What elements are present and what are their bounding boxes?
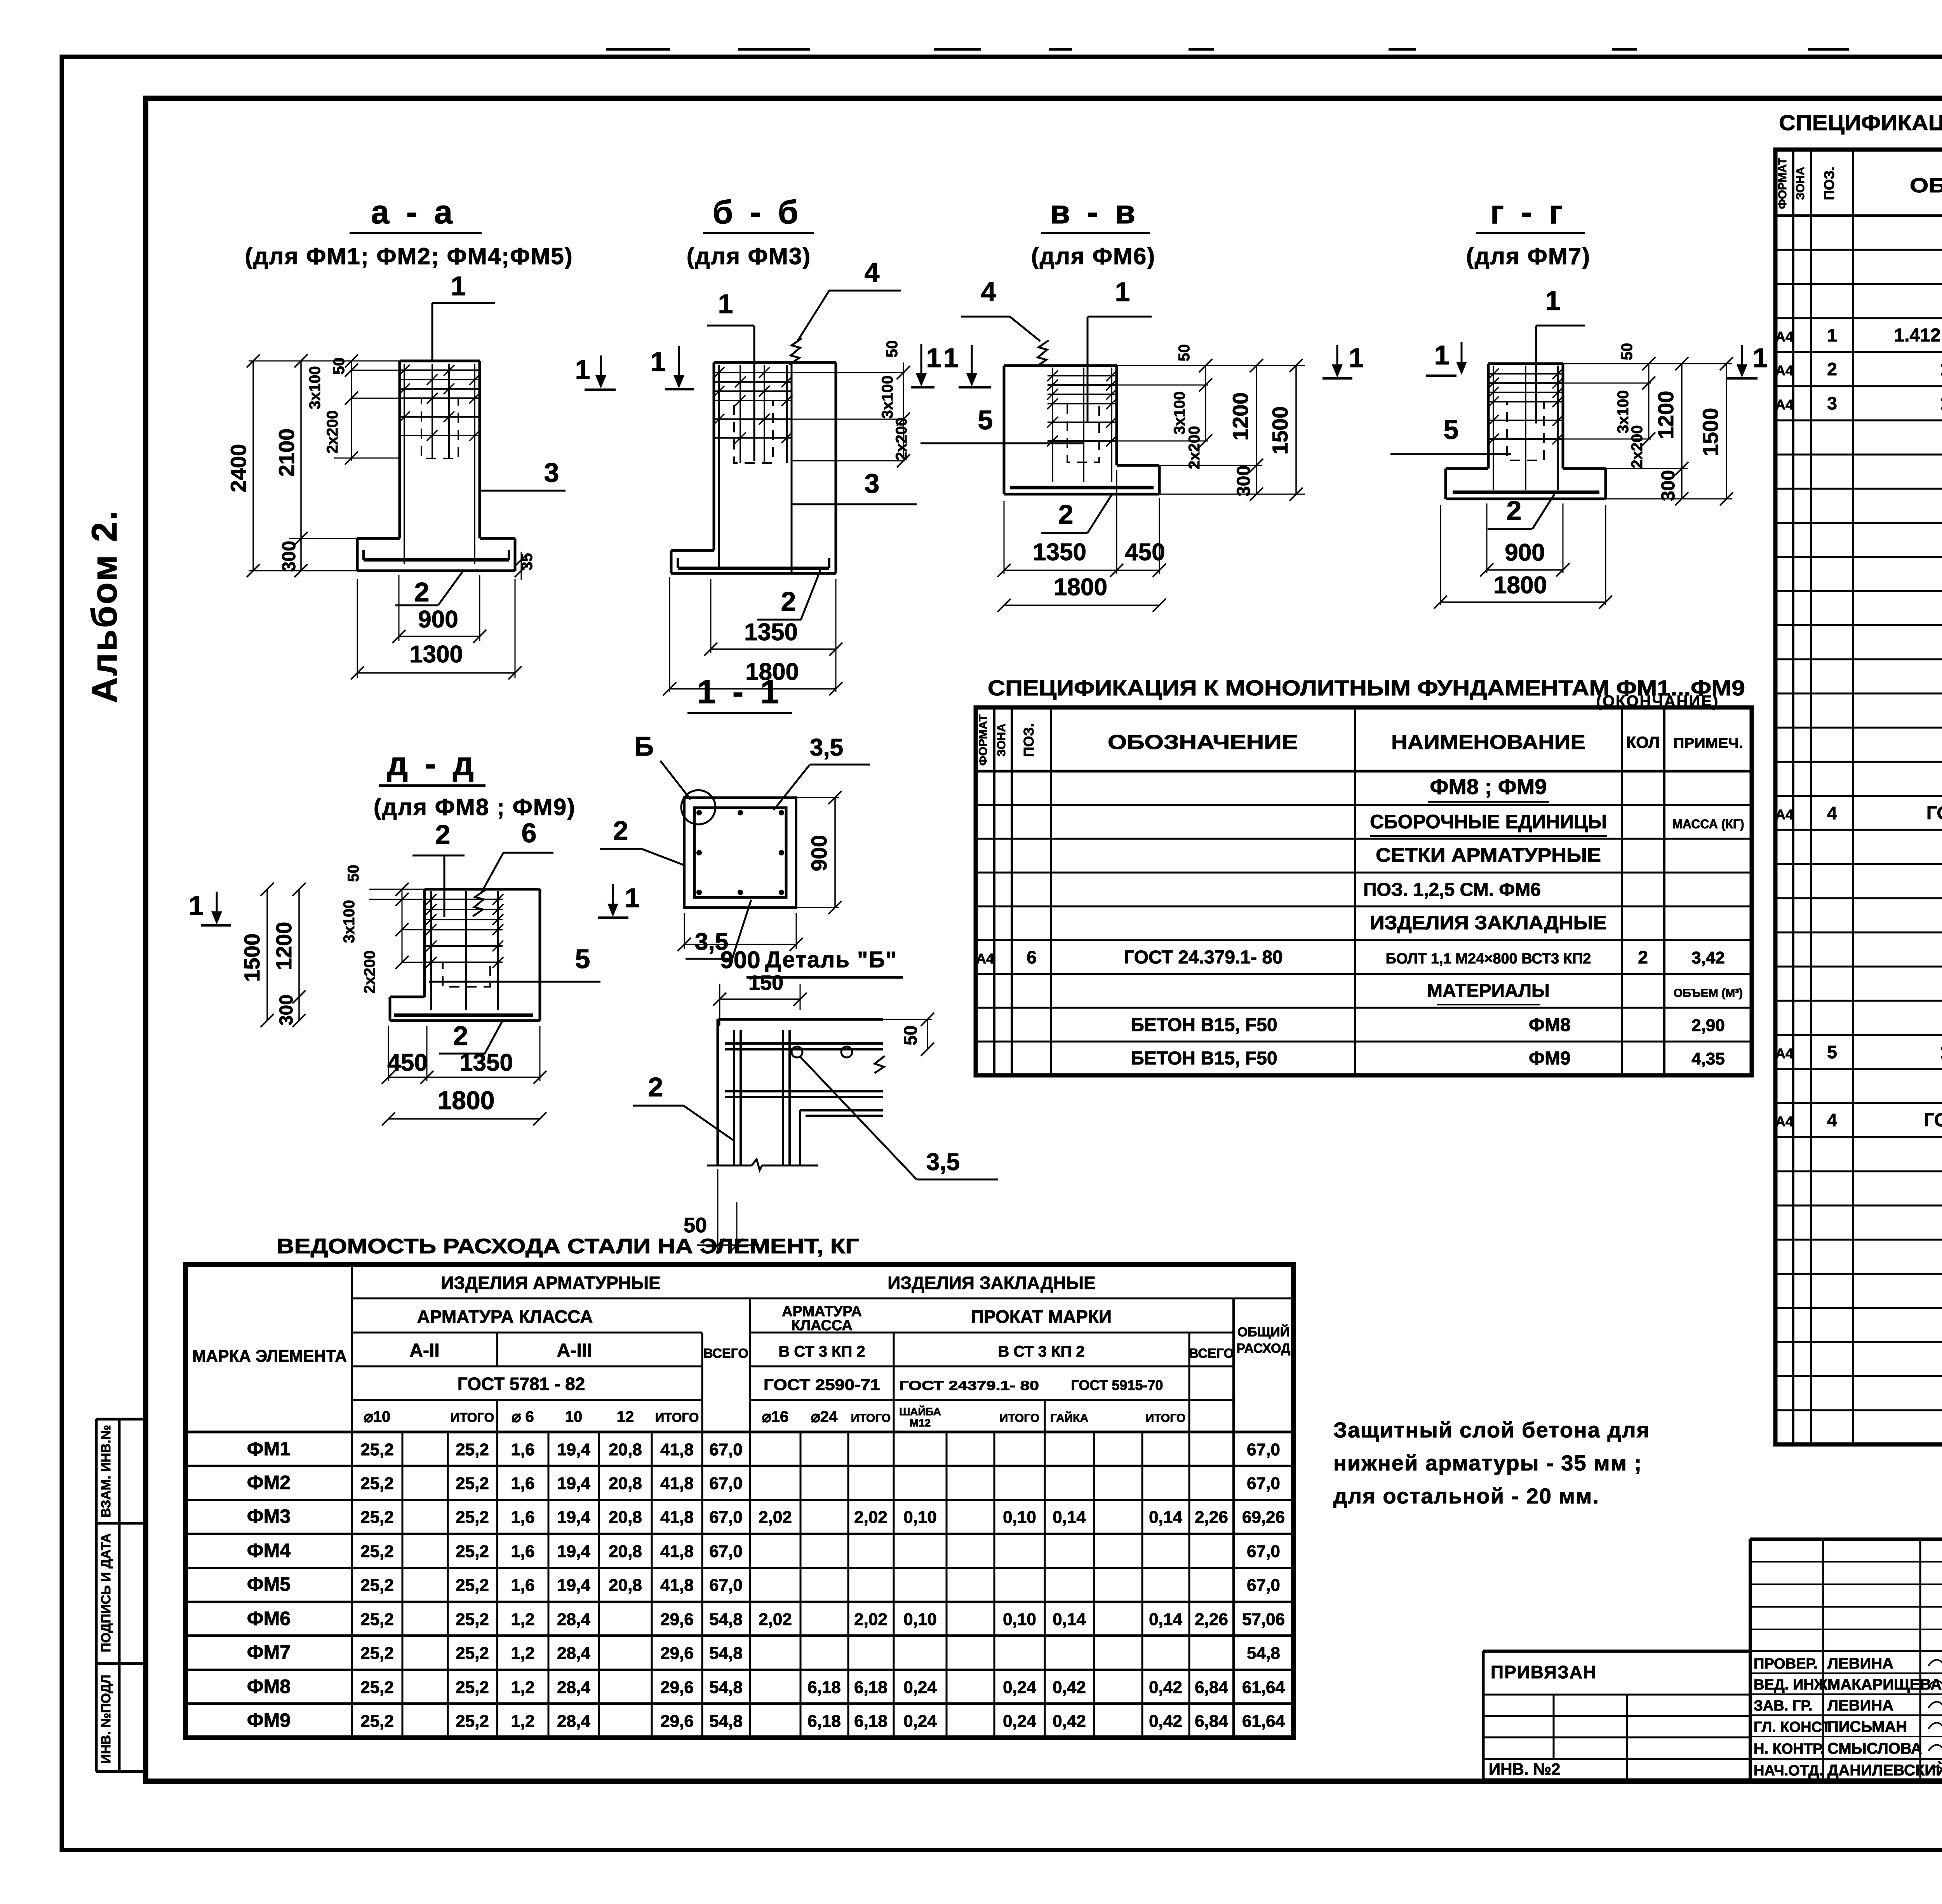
svg-text:19,4: 19,4 (557, 1508, 590, 1527)
svg-text:1800: 1800 (1054, 574, 1107, 601)
svg-text:НАИМЕНОВАНИЕ: НАИМЕНОВАНИЕ (1391, 731, 1585, 754)
svg-text:г - г: г - г (1490, 194, 1566, 231)
svg-text:А4: А4 (1775, 362, 1793, 378)
view 1-1 inner square rebar (694, 808, 786, 897)
detail B vertical rebar pair 1 (733, 1030, 735, 1165)
svg-text:1200: 1200 (1228, 392, 1253, 441)
svg-text:19,4: 19,4 (557, 1474, 590, 1493)
svg-text:2: 2 (1058, 499, 1074, 530)
detail B horizontal mesh bar 2 (725, 1090, 883, 1092)
section d-d dim 450 1350 (388, 1026, 389, 1081)
section b-b mesh bars (714, 372, 792, 373)
svg-text:2x200: 2x200 (1186, 426, 1203, 469)
svg-text:3x100: 3x100 (341, 900, 358, 943)
detail B concrete corner outline (718, 1018, 883, 1021)
svg-text:61,64: 61,64 (1242, 1678, 1285, 1697)
svg-text:28,4: 28,4 (557, 1712, 590, 1731)
svg-text:69,26: 69,26 (1242, 1508, 1285, 1527)
svg-text:ГОСТ 24.379.1- 80: ГОСТ 24.379.1- 80 (1124, 947, 1283, 968)
svg-text:ФМ4: ФМ4 (247, 1540, 291, 1561)
right spec table column lines (1792, 150, 1794, 1444)
svg-text:2: 2 (453, 1021, 468, 1051)
svg-text:ПОДПИСЬ И ДАТА: ПОДПИСЬ И ДАТА (99, 1533, 113, 1652)
svg-text:25,2: 25,2 (456, 1508, 489, 1527)
svg-text:(для ФМ6): (для ФМ6) (1031, 243, 1155, 269)
svg-text:ВСЕГО: ВСЕГО (1189, 1346, 1234, 1361)
section v-v embedded part dashed (1067, 404, 1099, 462)
svg-text:29,6: 29,6 (660, 1610, 694, 1629)
right spec table frame (1775, 150, 1942, 1444)
svg-text:ОБЩИЙ: ОБЩИЙ (1237, 1324, 1289, 1340)
svg-text:2x200: 2x200 (324, 410, 341, 453)
svg-text:41,8: 41,8 (660, 1576, 694, 1595)
svg-text:25,2: 25,2 (456, 1610, 489, 1629)
svg-text:Деталь "Б": Деталь "Б" (765, 947, 897, 972)
svg-text:а - а: а - а (371, 194, 456, 231)
svg-text:4: 4 (1827, 803, 1837, 823)
svg-text:3: 3 (544, 457, 559, 488)
svg-text:20,8: 20,8 (609, 1542, 642, 1561)
steel table data row lines (186, 1465, 1293, 1467)
svg-text:ФМ9: ФМ9 (247, 1709, 291, 1731)
svg-text:СМЫСЛОВА: СМЫСЛОВА (1827, 1740, 1922, 1757)
svg-text:67,0: 67,0 (709, 1576, 743, 1595)
svg-text:25,2: 25,2 (360, 1440, 394, 1459)
section a-a dim 900 (398, 575, 400, 641)
middle spec table frame (976, 707, 1752, 1075)
svg-text:1.412 - 1/ 77. В.3- 020- 01: 1.412 - 1/ 77. В.3- 020- 01 (1894, 325, 1942, 346)
svg-text:1,6: 1,6 (511, 1576, 534, 1595)
svg-text:0,24: 0,24 (903, 1678, 937, 1697)
section b-b dim 1350 (710, 579, 712, 653)
svg-text:2: 2 (648, 1072, 663, 1102)
svg-text:300: 300 (276, 995, 297, 1026)
section g-g dim 1800 (1440, 505, 1441, 605)
svg-text:450: 450 (1125, 539, 1165, 566)
svg-text:ЗОНА: ЗОНА (995, 723, 1008, 756)
svg-text:⌀16: ⌀16 (762, 1408, 789, 1425)
svg-text:1: 1 (1434, 340, 1450, 370)
svg-text:67,0: 67,0 (709, 1474, 743, 1493)
section v-v body outline (1004, 364, 1117, 367)
svg-text:ФМ1: ФМ1 (247, 1438, 291, 1460)
svg-text:0,42: 0,42 (1149, 1712, 1182, 1731)
svg-text:ИТОГО: ИТОГО (1000, 1412, 1039, 1425)
svg-text:СБОРОЧНЫЕ ЕДИНИЦЫ: СБОРОЧНЫЕ ЕДИНИЦЫ (1370, 811, 1607, 833)
svg-text:А4: А4 (976, 951, 994, 967)
svg-text:⌀24: ⌀24 (811, 1408, 838, 1425)
svg-text:ГОСТ 5915-70: ГОСТ 5915-70 (1071, 1377, 1163, 1393)
detail B vertical rebar pair 2 (782, 1030, 784, 1165)
title block signature rows (1750, 1672, 1942, 1674)
svg-text:МАТЕРИАЛЫ: МАТЕРИАЛЫ (1427, 981, 1550, 1001)
section b-b leader 4 weld mark (789, 338, 802, 365)
svg-text:А4: А4 (1775, 329, 1793, 345)
svg-text:1 - 1: 1 - 1 (697, 674, 783, 711)
svg-text:2: 2 (1638, 947, 1648, 967)
svg-text:Альбом 2.: Альбом 2. (85, 509, 124, 703)
svg-text:1: 1 (1115, 277, 1130, 307)
svg-text:1500: 1500 (240, 934, 264, 982)
svg-text:28,4: 28,4 (557, 1610, 590, 1629)
title block privyazan box (1483, 1650, 1750, 1653)
svg-text:10: 10 (565, 1408, 583, 1425)
svg-text:1: 1 (718, 289, 733, 319)
right spec table row lines (1775, 249, 1942, 251)
svg-text:20,8: 20,8 (609, 1440, 642, 1459)
svg-text:25,2: 25,2 (360, 1542, 394, 1561)
section a-a embedded part dashed (421, 398, 458, 458)
svg-text:0,10: 0,10 (1003, 1508, 1036, 1527)
section g-g footing outline (1446, 467, 1488, 470)
svg-text:61,64: 61,64 (1242, 1712, 1285, 1731)
svg-text:1: 1 (451, 271, 466, 301)
svg-text:КОЛ: КОЛ (1626, 733, 1660, 751)
svg-text:0,14: 0,14 (1053, 1508, 1086, 1527)
detail B dim 50 bottom (717, 1169, 719, 1250)
svg-text:ГОСТ 5781 - 82: ГОСТ 5781 - 82 (458, 1374, 585, 1394)
svg-text:Н. КОНТР.: Н. КОНТР. (1754, 1741, 1824, 1757)
svg-text:25,2: 25,2 (360, 1508, 394, 1527)
section b-b footing rebar (678, 567, 829, 570)
svg-text:ЛЕВИНА: ЛЕВИНА (1827, 1655, 1893, 1672)
svg-text:0,14: 0,14 (1149, 1610, 1182, 1629)
svg-text:25,2: 25,2 (360, 1610, 394, 1629)
svg-text:6: 6 (522, 818, 537, 848)
svg-text:1350: 1350 (459, 1049, 513, 1076)
section v-v dim 1500 (1295, 366, 1297, 494)
svg-text:А4: А4 (1775, 397, 1793, 413)
svg-text:4: 4 (1827, 1110, 1837, 1130)
section d-d dim 1200 300 (298, 889, 300, 1021)
svg-text:(для ФМ1; ФМ2; ФМ4;ФМ5): (для ФМ1; ФМ2; ФМ4;ФМ5) (245, 243, 573, 269)
svg-text:54,8: 54,8 (1247, 1644, 1280, 1663)
svg-text:1,6: 1,6 (511, 1440, 534, 1459)
svg-text:300: 300 (1234, 465, 1254, 496)
svg-text:50: 50 (684, 1214, 707, 1237)
svg-text:19,4: 19,4 (557, 1440, 590, 1459)
svg-text:3x100: 3x100 (306, 366, 324, 409)
svg-text:ФМ7: ФМ7 (247, 1641, 291, 1663)
svg-text:450: 450 (387, 1049, 427, 1076)
svg-text:ИНВ. №2: ИНВ. №2 (1489, 1760, 1560, 1778)
svg-text:ВСЕГО: ВСЕГО (703, 1346, 748, 1361)
section a-a small dims 50 3x100 2x200 (351, 361, 352, 461)
svg-text:0,14: 0,14 (1053, 1610, 1086, 1629)
svg-text:ОБОЗНАЧЕНИЕ: ОБОЗНАЧЕНИЕ (1108, 731, 1298, 754)
svg-text:6,18: 6,18 (807, 1678, 841, 1697)
svg-text:300: 300 (279, 541, 299, 572)
svg-text:50: 50 (900, 1025, 921, 1045)
svg-text:25,2: 25,2 (360, 1644, 394, 1663)
svg-text:ИНВ. №ПОДЛ: ИНВ. №ПОДЛ (99, 1675, 113, 1764)
svg-text:БОЛТ 1,1 М24×800 ВСТ3 КП2: БОЛТ 1,1 М24×800 ВСТ3 КП2 (1386, 951, 1591, 967)
section d-d embedded part dashed (443, 962, 490, 987)
svg-text:1: 1 (651, 347, 666, 377)
svg-text:ИТОГО: ИТОГО (451, 1410, 494, 1425)
svg-text:А-II: А-II (409, 1340, 439, 1361)
svg-text:ФОРМАТ: ФОРМАТ (1776, 158, 1789, 209)
svg-text:25,2: 25,2 (456, 1542, 489, 1561)
svg-text:6,84: 6,84 (1195, 1678, 1228, 1697)
detail B bolt circles (792, 1047, 802, 1057)
svg-text:1800: 1800 (1493, 572, 1547, 599)
svg-text:1200: 1200 (271, 922, 296, 970)
section a-a mesh weld ticks (399, 365, 410, 376)
svg-text:67,0: 67,0 (1247, 1474, 1280, 1493)
svg-text:2400: 2400 (226, 444, 251, 493)
svg-text:ПРИМЕЧ.: ПРИМЕЧ. (1673, 735, 1743, 751)
svg-text:67,0: 67,0 (709, 1542, 743, 1561)
svg-text:2: 2 (613, 815, 628, 846)
section d-d leader 6 weld mark (473, 890, 485, 916)
svg-text:1,2: 1,2 (511, 1644, 534, 1663)
section g-g footing rebar (1453, 491, 1599, 494)
section g-g mesh weld ticks (1488, 368, 1499, 379)
svg-text:1: 1 (943, 343, 959, 373)
svg-text:2: 2 (435, 819, 451, 850)
svg-text:5: 5 (1827, 1042, 1837, 1062)
svg-text:1: 1 (625, 883, 640, 913)
svg-text:28,4: 28,4 (557, 1678, 590, 1697)
svg-text:2x200: 2x200 (893, 417, 910, 460)
svg-text:ФМ9: ФМ9 (1529, 1048, 1571, 1069)
svg-text:ФМ3: ФМ3 (247, 1505, 291, 1527)
svg-text:РАСХОД: РАСХОД (1237, 1341, 1291, 1356)
section a-a dim 2100 300 (249, 361, 400, 362)
svg-text:20,8: 20,8 (609, 1508, 642, 1527)
svg-text:50: 50 (1176, 344, 1193, 362)
svg-text:900: 900 (807, 835, 831, 871)
section v-v dim 1200 300 (1117, 365, 1305, 366)
svg-text:1.410 - 3.1 - 01: 1.410 - 3.1 - 01 (1940, 393, 1942, 414)
detail B horizontal mesh bar 1 (725, 1042, 883, 1045)
svg-text:ОБОЗНАЧЕНИЕ: ОБОЗНАЧЕНИЕ (1910, 174, 1942, 197)
detail B break mark right (875, 1056, 885, 1073)
svg-text:1,6: 1,6 (511, 1542, 534, 1561)
section b-b inner face line (791, 362, 793, 573)
svg-text:2: 2 (1507, 495, 1522, 526)
svg-text:ПИСЬМАН: ПИСЬМАН (1827, 1718, 1907, 1735)
svg-text:67,0: 67,0 (1247, 1440, 1280, 1459)
svg-text:ФМ2: ФМ2 (247, 1472, 291, 1493)
svg-text:29,6: 29,6 (660, 1712, 694, 1731)
svg-text:ФМ8: ФМ8 (247, 1676, 291, 1697)
svg-text:1: 1 (1753, 343, 1768, 373)
svg-text:нижней арматуры - 35 мм ;: нижней арматуры - 35 мм ; (1333, 1451, 1642, 1475)
svg-text:ВЕДОМОСТЬ РАСХОДА СТАЛИ НА: ВЕДОМОСТЬ РАСХОДА СТАЛИ НА ЭЛЕМЕНТ, КГ (277, 1235, 859, 1258)
svg-text:6,18: 6,18 (854, 1678, 887, 1697)
svg-text:19,4: 19,4 (557, 1542, 590, 1561)
svg-text:МАКАРИЩЕВА: МАКАРИЩЕВА (1827, 1676, 1942, 1693)
svg-text:ПРОКАТ МАРКИ: ПРОКАТ МАРКИ (971, 1306, 1112, 1327)
svg-text:6: 6 (1027, 947, 1037, 967)
svg-text:0,42: 0,42 (1053, 1712, 1086, 1731)
svg-text:1,2: 1,2 (511, 1678, 534, 1697)
svg-text:900: 900 (1505, 539, 1545, 566)
svg-text:2,02: 2,02 (854, 1610, 887, 1629)
section v-v mesh weld ticks (1047, 370, 1058, 381)
svg-text:ГЛ. КОНСТ: ГЛ. КОНСТ (1754, 1719, 1831, 1735)
svg-text:1800: 1800 (438, 1086, 495, 1115)
svg-text:3: 3 (1827, 393, 1837, 413)
middle spec table header row line (976, 770, 1752, 773)
svg-text:2x200: 2x200 (361, 950, 378, 993)
section a-a dim 2400 (252, 361, 254, 571)
svg-text:29,6: 29,6 (660, 1678, 694, 1697)
svg-text:6,18: 6,18 (854, 1712, 887, 1731)
svg-text:МАРКА ЭЛЕМЕНТА: МАРКА ЭЛЕМЕНТА (192, 1347, 347, 1366)
svg-text:20,8: 20,8 (609, 1474, 642, 1493)
svg-text:1350: 1350 (1033, 539, 1086, 566)
svg-text:⌀ 6: ⌀ 6 (512, 1408, 534, 1425)
svg-text:ГОСТ 24379.1 - 80: ГОСТ 24379.1 - 80 (1924, 1110, 1942, 1131)
steel table outer frame (186, 1265, 1293, 1738)
svg-text:29,6: 29,6 (660, 1644, 694, 1663)
title block signatures squiggles (1928, 1656, 1942, 1666)
section g-g embedded part dashed (1507, 402, 1544, 460)
section v-v right small dims (1117, 385, 1208, 386)
section v-v dim 1800 (1004, 604, 1159, 606)
svg-text:А4: А4 (1775, 807, 1793, 822)
title block signature table upper rows (1750, 1561, 1942, 1563)
svg-text:150: 150 (748, 971, 783, 995)
svg-text:ФМ8 ; ФМ9: ФМ8 ; ФМ9 (1430, 774, 1547, 799)
svg-text:1,2: 1,2 (511, 1712, 534, 1731)
svg-text:25,2: 25,2 (360, 1576, 394, 1595)
svg-text:1,2: 1,2 (511, 1610, 534, 1629)
svg-text:1.410 - 3.1 - 01: 1.410 - 3.1 - 01 (1940, 1042, 1942, 1063)
svg-text:2x200: 2x200 (1629, 425, 1646, 468)
svg-text:25,2: 25,2 (360, 1712, 394, 1731)
svg-text:ШАЙБА: ШАЙБА (899, 1405, 941, 1418)
svg-text:1: 1 (189, 890, 204, 921)
section d-d left small dims (369, 889, 425, 890)
svg-text:3,42: 3,42 (1691, 948, 1725, 967)
steel table header horizontal lines (352, 1298, 1293, 1300)
svg-text:А4: А4 (1775, 1113, 1793, 1129)
svg-text:67,0: 67,0 (709, 1440, 743, 1459)
section b-b dim 1800 (669, 577, 670, 692)
svg-text:ФОРМАТ: ФОРМАТ (977, 714, 990, 766)
svg-text:4: 4 (981, 277, 996, 307)
middle spec table row lines (976, 804, 1752, 806)
steel table column lines (351, 1265, 353, 1738)
svg-text:В СТ 3 КП 2: В СТ 3 КП 2 (998, 1343, 1084, 1360)
section g-g column outline (1488, 362, 1563, 365)
section a-a footing outline (357, 537, 400, 540)
svg-text:1: 1 (1545, 286, 1561, 316)
svg-text:25,2: 25,2 (360, 1474, 394, 1493)
svg-text:25,2: 25,2 (456, 1678, 489, 1697)
svg-text:ГОСТ 24379.1- 80: ГОСТ 24379.1- 80 (1926, 803, 1942, 824)
svg-text:20,8: 20,8 (609, 1576, 642, 1595)
svg-text:МАССА (КГ): МАССА (КГ) (1672, 817, 1744, 831)
svg-text:0,24: 0,24 (903, 1712, 937, 1731)
section v-v mesh bars (1048, 375, 1117, 376)
svg-text:ИТОГО: ИТОГО (655, 1410, 699, 1425)
svg-text:67,0: 67,0 (1247, 1542, 1280, 1561)
svg-text:А-III: А-III (557, 1340, 592, 1361)
svg-text:57,06: 57,06 (1242, 1610, 1285, 1629)
svg-text:для остальной - 20 мм.: для остальной - 20 мм. (1333, 1484, 1599, 1508)
svg-text:4: 4 (865, 257, 880, 287)
svg-text:КЛАССА: КЛАССА (791, 1317, 853, 1334)
svg-text:2,26: 2,26 (1195, 1610, 1228, 1629)
svg-text:2,02: 2,02 (854, 1508, 887, 1527)
svg-text:0,10: 0,10 (903, 1610, 937, 1629)
section d-d dim 1500 (266, 889, 268, 1021)
view 1-1 detail circle (681, 790, 715, 824)
svg-text:0,24: 0,24 (1003, 1678, 1036, 1697)
svg-text:25,2: 25,2 (456, 1712, 489, 1731)
section b-b right small dims (792, 372, 905, 373)
svg-text:1500: 1500 (1268, 406, 1292, 455)
svg-text:25,2: 25,2 (360, 1678, 394, 1697)
svg-text:25,2: 25,2 (456, 1576, 489, 1595)
section g-g dim 900 (1486, 503, 1488, 573)
svg-text:Защитный слой бетона для: Защитный слой бетона для (1333, 1418, 1650, 1442)
left margin stamp boxes (95, 1419, 98, 1772)
svg-text:М12: М12 (910, 1417, 931, 1429)
section d-d footing rebar (394, 1014, 533, 1017)
svg-text:ПОЗ. 1,2,5 СМ. ФМ6: ПОЗ. 1,2,5 СМ. ФМ6 (1363, 880, 1541, 900)
svg-text:ФМ8: ФМ8 (1529, 1015, 1571, 1035)
section v-v dim 1350 450 (1004, 501, 1005, 574)
svg-text:0,42: 0,42 (1053, 1678, 1086, 1697)
section d-d body outline (425, 888, 540, 891)
svg-text:41,8: 41,8 (660, 1440, 694, 1459)
svg-text:СПЕЦИФИКАЦИЯ К МОНОЛИТНЫМ: СПЕЦИФИКАЦИЯ К МОНОЛИТНЫМ ФУНДАМЕНТАМ ФМ… (1779, 110, 1942, 135)
svg-text:ГОСТ 24379.1- 80: ГОСТ 24379.1- 80 (899, 1378, 1039, 1393)
svg-text:50: 50 (884, 340, 901, 358)
svg-text:ЗОНА: ЗОНА (1794, 167, 1807, 200)
section d-d dim 1800 (388, 1118, 540, 1120)
svg-text:ИЗДЕЛИЯ АРМАТУРНЫЕ: ИЗДЕЛИЯ АРМАТУРНЫЕ (441, 1273, 660, 1293)
svg-text:3,5: 3,5 (810, 734, 843, 761)
svg-text:ИТОГО: ИТОГО (1146, 1412, 1185, 1425)
svg-text:ВЗАМ. ИНВ.№: ВЗАМ. ИНВ.№ (99, 1425, 113, 1517)
section b-b body outline (714, 361, 836, 364)
svg-text:4,35: 4,35 (1691, 1049, 1725, 1068)
svg-text:6,84: 6,84 (1195, 1712, 1228, 1731)
svg-text:1: 1 (926, 343, 941, 373)
view 1-1 rebar dots (696, 810, 702, 815)
svg-text:ГАЙКА: ГАЙКА (1050, 1411, 1088, 1425)
svg-text:3x100: 3x100 (879, 375, 896, 418)
svg-text:50: 50 (1618, 343, 1636, 361)
detail B L-shaped bar (800, 1109, 883, 1111)
svg-text:1,6: 1,6 (511, 1508, 534, 1527)
svg-text:ПРИВЯЗАН: ПРИВЯЗАН (1491, 1662, 1597, 1682)
svg-text:ИЗДЕЛИЯ ЗАКЛАДНЫЕ: ИЗДЕЛИЯ ЗАКЛАДНЫЕ (887, 1273, 1096, 1293)
view 1-1 outer square (684, 798, 796, 908)
svg-text:1200: 1200 (1653, 391, 1678, 439)
svg-text:41,8: 41,8 (660, 1542, 694, 1561)
svg-text:41,8: 41,8 (660, 1474, 694, 1493)
svg-text:1: 1 (1827, 325, 1837, 345)
svg-text:⌀10: ⌀10 (364, 1408, 391, 1425)
svg-text:5: 5 (1444, 415, 1459, 445)
svg-text:67,0: 67,0 (1247, 1576, 1280, 1595)
svg-text:0,10: 0,10 (903, 1508, 937, 1527)
svg-text:1,6: 1,6 (511, 1474, 534, 1493)
svg-text:В СТ 3 КП 2: В СТ 3 КП 2 (778, 1343, 865, 1360)
view 1-1 dim 900 right (796, 797, 839, 798)
svg-text:2,26: 2,26 (1195, 1508, 1228, 1527)
svg-text:1: 1 (1349, 343, 1364, 373)
svg-text:41,8: 41,8 (660, 1508, 694, 1527)
